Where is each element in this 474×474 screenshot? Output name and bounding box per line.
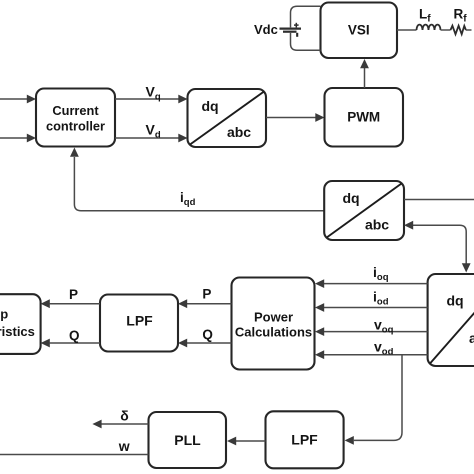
wire Q LPF to droop bbox=[50, 342, 100, 344]
inductor Lf bbox=[417, 25, 441, 30]
svg-text:Calculations: Calculations bbox=[235, 325, 312, 340]
wire vod to power calculations bbox=[324, 354, 428, 356]
wire w output of PLL bbox=[0, 454, 149, 456]
plus sign of Vdc bbox=[294, 24, 299, 26]
wire iabc branch into dq/abc 2 and dq/abc 3 bbox=[413, 225, 466, 263]
wire P LPF to droop bbox=[50, 303, 100, 305]
resistor Rf bbox=[451, 26, 466, 35]
block PWM bbox=[325, 88, 404, 147]
block VSI bbox=[321, 3, 398, 59]
block PLL bbox=[149, 412, 227, 468]
wire resistor to grid edge bbox=[466, 29, 472, 31]
svg-text:Q: Q bbox=[69, 328, 80, 343]
capacitor Vdc source plates bbox=[280, 28, 302, 30]
wire input id-ref into current controller bbox=[0, 137, 28, 139]
svg-text:LPF: LPF bbox=[291, 431, 318, 447]
wire Vdc loop to VSI bbox=[291, 6, 321, 50]
svg-text:abc: abc bbox=[227, 124, 251, 140]
svg-text:abc: abc bbox=[365, 217, 389, 233]
svg-text:δ: δ bbox=[120, 407, 129, 423]
wire voq to power calculations bbox=[324, 331, 428, 333]
wire PWM to VSI bbox=[364, 68, 366, 89]
wire iod to power calculations bbox=[324, 307, 428, 309]
wire inductor to resistor bbox=[441, 29, 451, 31]
wire P power calc to LPF bbox=[187, 303, 232, 305]
wire Vd from current controller to dq/abc 1 bbox=[115, 137, 179, 139]
block LPF 2 bbox=[266, 411, 344, 468]
svg-text:P: P bbox=[69, 287, 78, 302]
svg-text:P: P bbox=[202, 287, 211, 302]
svg-text:VSI: VSI bbox=[348, 23, 370, 38]
svg-text:Vdc: Vdc bbox=[254, 22, 278, 37]
svg-text:characteristics: characteristics bbox=[0, 324, 35, 339]
svg-text:w: w bbox=[118, 438, 130, 454]
wire ioq to power calculations bbox=[324, 283, 428, 285]
svg-text:Droop: Droop bbox=[0, 307, 8, 322]
svg-text:PLL: PLL bbox=[174, 432, 201, 448]
wire dq/abc 2 output to grid edge bbox=[404, 199, 474, 201]
wire dq/abc 1 to PWM bbox=[266, 117, 316, 119]
wire VSI output bbox=[397, 29, 417, 31]
block Power Calculations bbox=[232, 278, 315, 370]
svg-text:dq: dq bbox=[342, 190, 359, 206]
svg-text:Q: Q bbox=[202, 327, 213, 342]
svg-text:Current: Current bbox=[52, 103, 99, 118]
svg-text:dq: dq bbox=[201, 98, 218, 114]
block Current controller bbox=[36, 89, 115, 147]
block dq/abc transform U2 bbox=[324, 181, 404, 240]
block Droop characteristics bbox=[0, 294, 41, 354]
minus lead tick of Vdc bbox=[296, 33, 298, 37]
wire delta output of PLL bbox=[102, 423, 149, 425]
wire input iq-ref into current controller bbox=[0, 98, 28, 100]
wire LPF 2 to PLL bbox=[236, 440, 266, 442]
svg-text:abc: abc bbox=[469, 330, 474, 346]
svg-text:PWM: PWM bbox=[347, 110, 380, 125]
block dq/abc transform U3 bbox=[428, 274, 474, 366]
wire iqd feedback from dq/abc 2 to current controller bbox=[74, 157, 324, 211]
wire Q power calc to LPF bbox=[187, 342, 232, 344]
svg-text:dq: dq bbox=[446, 293, 463, 309]
svg-text:controller: controller bbox=[46, 119, 105, 134]
wire vod branch down to LPF 2 bbox=[354, 355, 402, 441]
block LPF power filter bbox=[100, 295, 178, 352]
wire Vq from current controller to dq/abc 1 bbox=[115, 98, 179, 100]
svg-text:LPF: LPF bbox=[126, 313, 153, 329]
block dq/abc transform U1 bbox=[188, 89, 267, 147]
svg-text:Power: Power bbox=[254, 310, 293, 325]
